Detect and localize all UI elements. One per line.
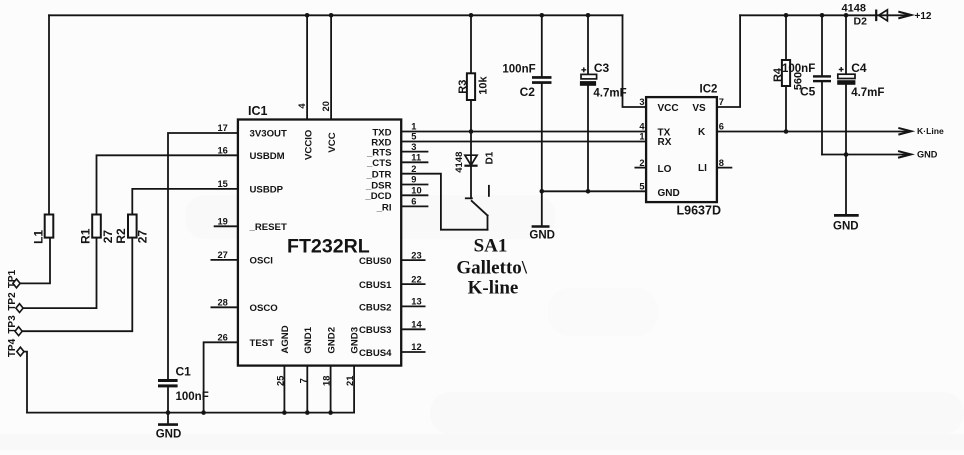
svg-text:14: 14	[411, 320, 422, 330]
svg-text:IC1: IC1	[248, 104, 268, 118]
svg-text:21: 21	[345, 376, 355, 386]
svg-text:1: 1	[639, 132, 644, 142]
svg-text:10k: 10k	[477, 76, 489, 95]
svg-text:27: 27	[135, 230, 149, 244]
svg-text:IC2: IC2	[700, 84, 718, 96]
svg-text:GND: GND	[833, 221, 859, 233]
svg-text:28: 28	[217, 298, 227, 308]
svg-text:TP3: TP3	[7, 315, 18, 334]
svg-text:VCC: VCC	[658, 103, 679, 114]
svg-text:USBDP: USBDP	[250, 184, 284, 195]
svg-text:2: 2	[411, 164, 416, 174]
svg-text:_RTS: _RTS	[366, 148, 392, 159]
svg-text:L1: L1	[32, 230, 46, 244]
svg-text:26: 26	[217, 333, 227, 343]
svg-text:AGND: AGND	[280, 325, 291, 353]
svg-text:R3: R3	[457, 80, 469, 94]
svg-text:7: 7	[298, 378, 308, 383]
svg-text:_DCD: _DCD	[364, 191, 391, 202]
svg-text:4.7mF: 4.7mF	[593, 88, 626, 100]
svg-text:D1: D1	[484, 151, 495, 164]
svg-text:1: 1	[411, 122, 416, 132]
svg-text:4: 4	[297, 103, 307, 109]
svg-text:3V3OUT: 3V3OUT	[250, 129, 287, 140]
svg-text:K: K	[698, 127, 706, 138]
svg-text:7: 7	[719, 97, 724, 107]
svg-text:100nF: 100nF	[176, 391, 209, 403]
svg-text:13: 13	[411, 297, 421, 307]
svg-text:6: 6	[719, 122, 724, 132]
svg-text:100nF: 100nF	[502, 64, 535, 76]
svg-text:TEST: TEST	[250, 338, 275, 349]
svg-text:VCCIO: VCCIO	[303, 129, 314, 160]
svg-text:22: 22	[411, 274, 421, 284]
svg-text:GND2: GND2	[326, 327, 337, 354]
svg-text:SA1: SA1	[474, 236, 508, 257]
svg-text:4148: 4148	[842, 2, 866, 14]
svg-text:8: 8	[719, 158, 724, 168]
svg-text:GND: GND	[156, 428, 182, 440]
svg-text:VCC: VCC	[327, 132, 338, 152]
svg-text:4.7mF: 4.7mF	[851, 87, 884, 99]
svg-text:10: 10	[411, 186, 421, 196]
svg-text:4148: 4148	[454, 152, 465, 173]
svg-text:C4: C4	[851, 61, 867, 75]
svg-text:9: 9	[411, 175, 416, 185]
svg-text:C2: C2	[520, 85, 536, 99]
svg-text:R2: R2	[114, 228, 128, 244]
svg-text:_DTR: _DTR	[365, 170, 391, 181]
svg-text:LI: LI	[698, 163, 707, 174]
svg-text:3: 3	[639, 97, 644, 107]
svg-text:17: 17	[217, 123, 227, 133]
svg-text:18: 18	[322, 376, 332, 386]
svg-text:23: 23	[411, 250, 421, 260]
svg-text:27: 27	[217, 250, 227, 260]
svg-text:FT232RL: FT232RL	[287, 236, 370, 258]
svg-text:19: 19	[217, 217, 227, 227]
svg-text:3: 3	[411, 142, 416, 152]
svg-text:OSCI: OSCI	[250, 255, 274, 266]
svg-text:CBUS0: CBUS0	[359, 256, 392, 267]
svg-text:5: 5	[639, 182, 644, 192]
svg-text:GND: GND	[917, 150, 938, 160]
svg-text:RX: RX	[658, 137, 672, 148]
svg-text:VS: VS	[692, 103, 706, 114]
svg-text:D2: D2	[854, 16, 868, 28]
svg-text:+12: +12	[915, 11, 932, 22]
svg-text:16: 16	[217, 146, 227, 156]
svg-text:100nF: 100nF	[782, 63, 815, 75]
svg-text:GND: GND	[529, 229, 555, 241]
svg-text:_RI: _RI	[376, 202, 392, 213]
svg-text:USBDM: USBDM	[250, 151, 285, 162]
svg-text:GND: GND	[658, 188, 680, 199]
svg-text:K-line: K-line	[468, 277, 519, 298]
svg-text:15: 15	[217, 179, 227, 189]
svg-text:TP2: TP2	[7, 292, 18, 311]
svg-text:CBUS3: CBUS3	[359, 325, 392, 336]
svg-text:_DSR: _DSR	[365, 180, 392, 191]
svg-text:2: 2	[639, 158, 644, 168]
svg-text:OSCO: OSCO	[250, 303, 279, 314]
svg-text:LO: LO	[658, 164, 672, 175]
svg-text:Galletto\: Galletto\	[456, 257, 527, 278]
svg-text:K·Line: K·Line	[917, 126, 944, 136]
svg-text:C5: C5	[800, 85, 816, 99]
svg-text:CBUS4: CBUS4	[359, 348, 392, 359]
svg-text:TP4: TP4	[7, 338, 18, 357]
svg-text:27: 27	[101, 230, 115, 244]
svg-text:6: 6	[411, 197, 416, 207]
svg-text:20: 20	[321, 101, 331, 111]
svg-text:L9637D: L9637D	[677, 204, 721, 218]
svg-text:GND3: GND3	[349, 327, 360, 354]
svg-text:R1: R1	[78, 228, 92, 244]
svg-text:C1: C1	[176, 365, 192, 379]
svg-text:12: 12	[411, 342, 421, 352]
svg-text:_RESET: _RESET	[249, 222, 287, 233]
svg-text:CBUS2: CBUS2	[359, 302, 392, 313]
svg-text:GND1: GND1	[303, 326, 314, 353]
svg-text:_CTS: _CTS	[366, 158, 392, 169]
svg-text:5: 5	[411, 132, 416, 142]
svg-text:11: 11	[411, 153, 421, 163]
svg-text:4: 4	[639, 122, 645, 132]
svg-text:TP1: TP1	[7, 269, 18, 288]
svg-text:C3: C3	[594, 61, 610, 75]
svg-text:25: 25	[275, 376, 285, 386]
svg-text:CBUS1: CBUS1	[359, 280, 392, 291]
